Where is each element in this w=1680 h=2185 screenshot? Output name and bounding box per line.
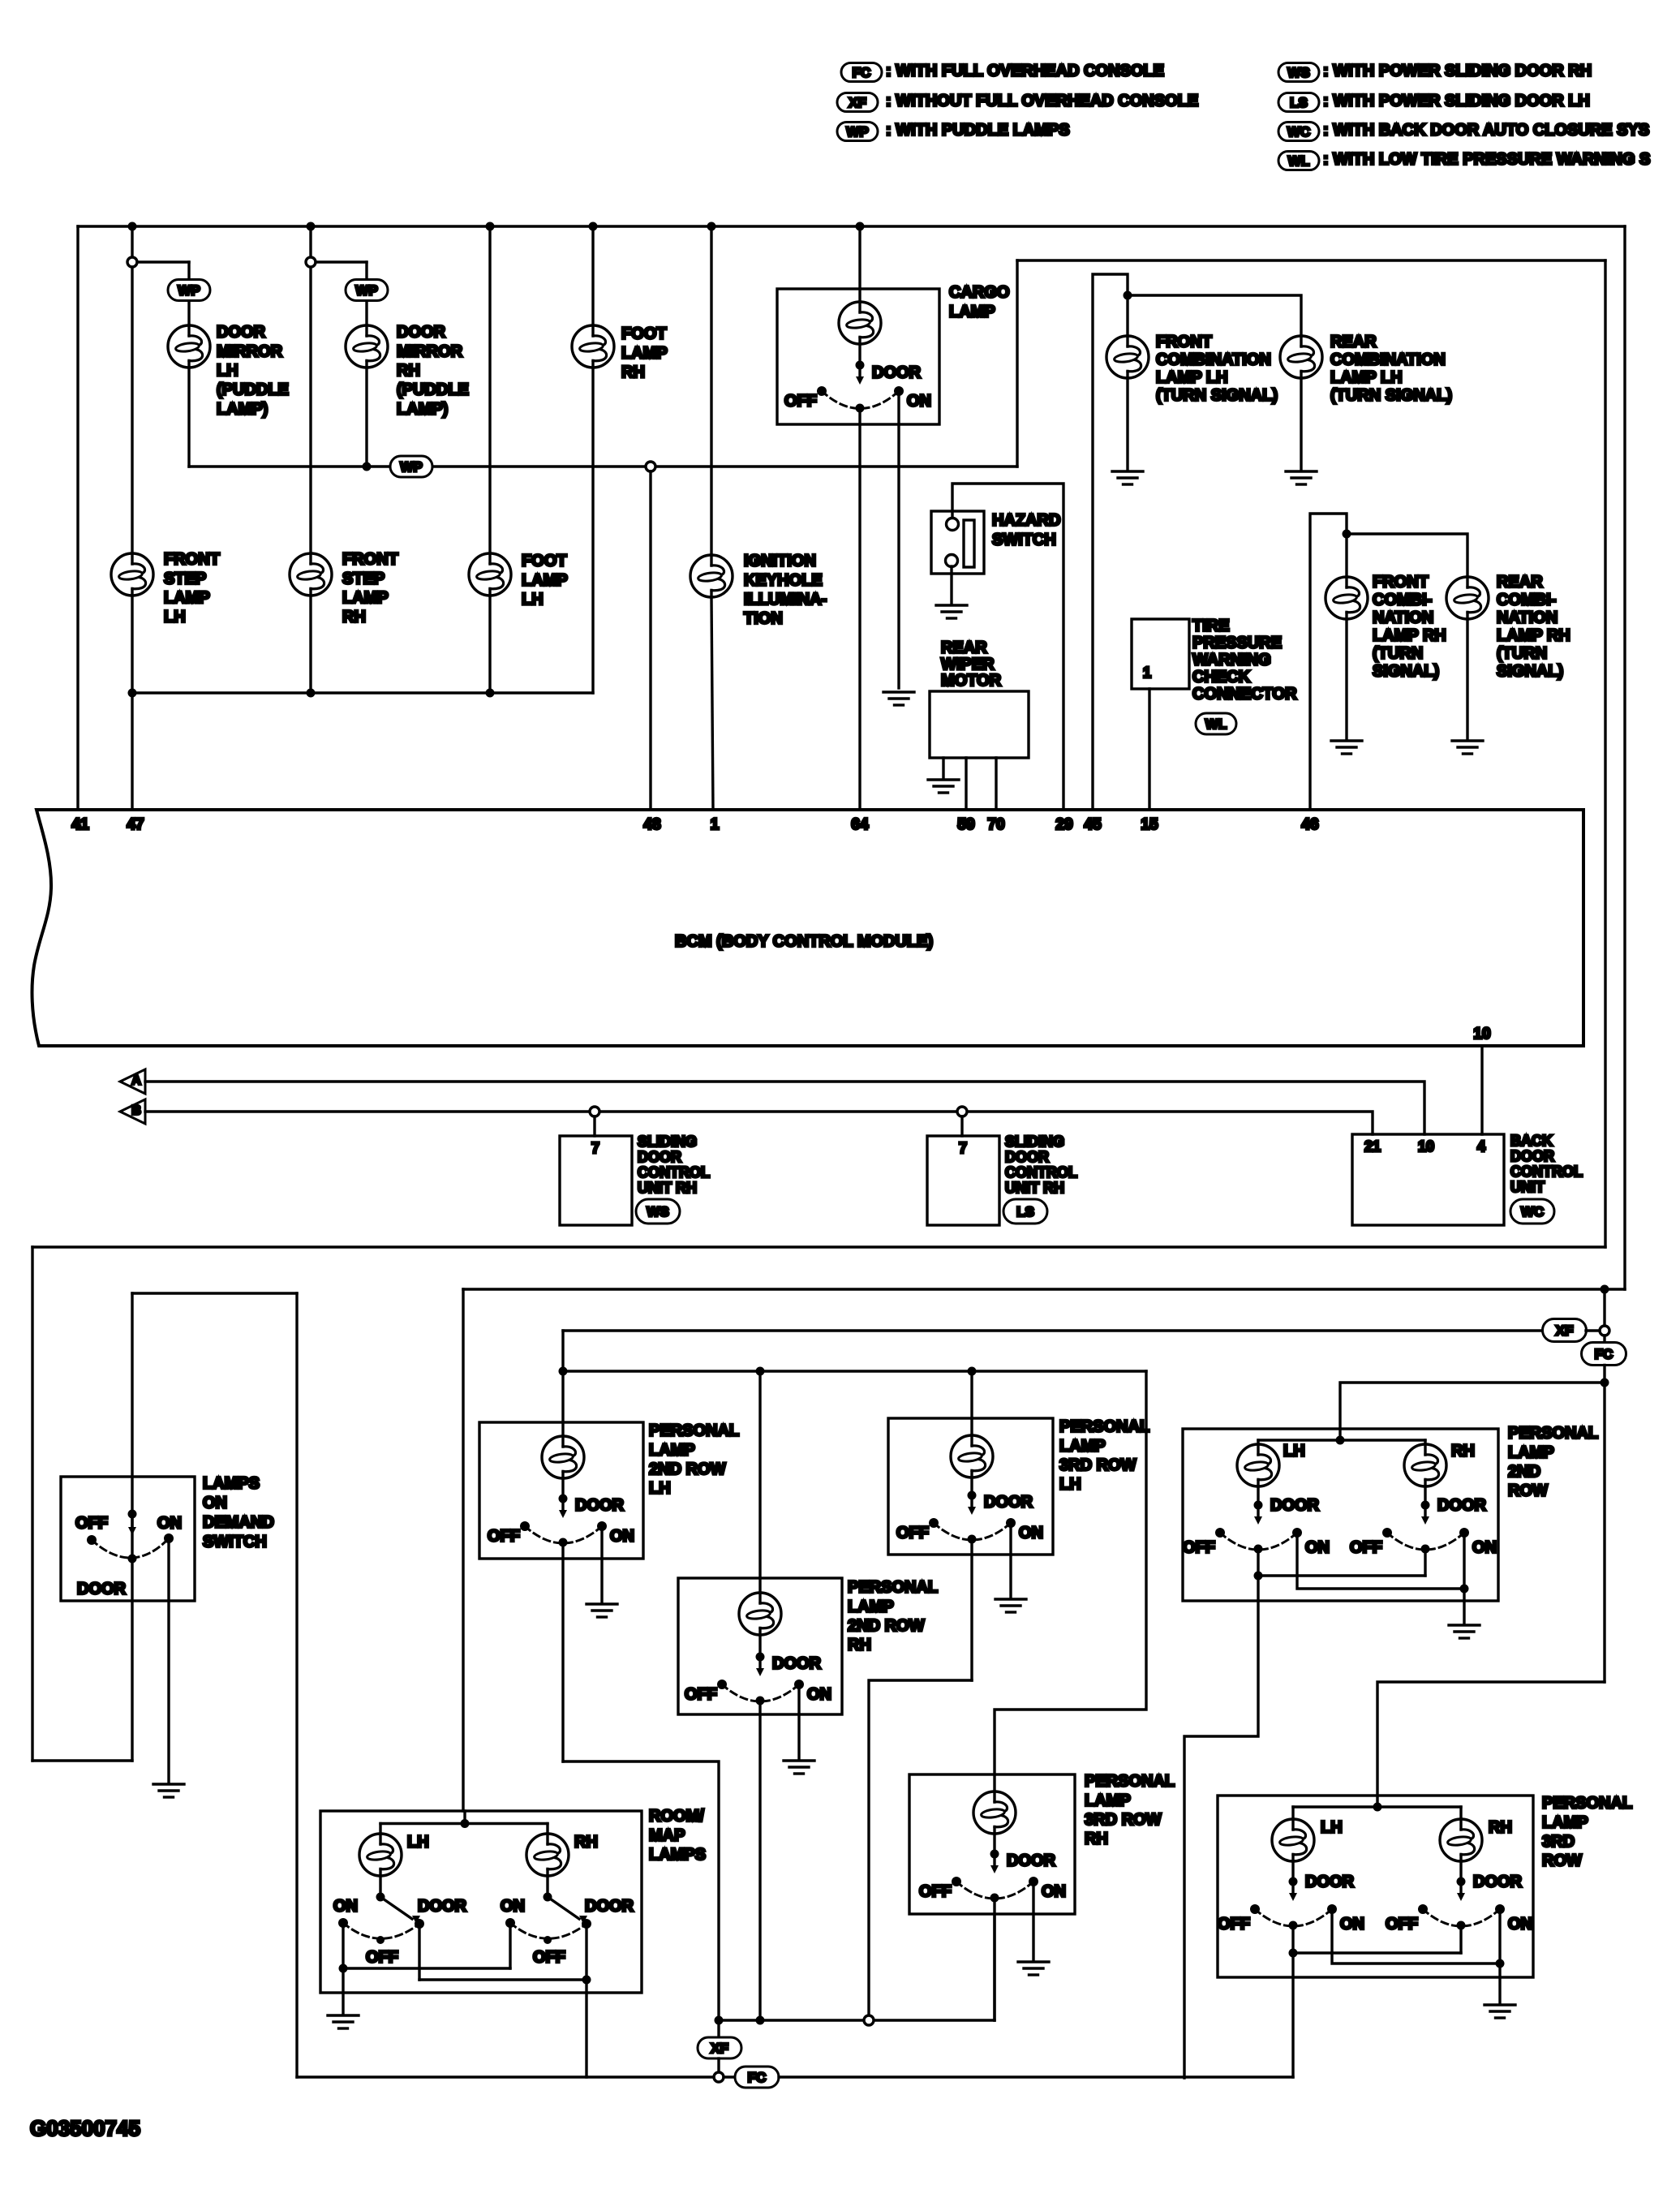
option symbol WC bbox=[1510, 1199, 1554, 1224]
svg-text:DOOR: DOOR bbox=[772, 1655, 822, 1673]
wire: WP oval to mirror RH bulb bbox=[365, 301, 367, 325]
svg-text:FRONT: FRONT bbox=[342, 551, 398, 569]
node: 2nd row RH junction bbox=[756, 2016, 765, 2025]
svg-text:MIRROR: MIRROR bbox=[397, 342, 463, 360]
wire: left feed down to BCM pin 41 bbox=[76, 226, 79, 810]
svg-text:DOOR: DOOR bbox=[418, 1898, 467, 1916]
svg-text:WC: WC bbox=[1521, 1204, 1544, 1219]
node: combination LH branch bbox=[1124, 291, 1132, 300]
switch: personal 2nd row LH bbox=[559, 1495, 568, 1503]
svg-text:OFF: OFF bbox=[366, 1949, 398, 1967]
svg-text:LAMP: LAMP bbox=[1508, 1443, 1554, 1461]
svg-text:COMBI-: COMBI- bbox=[1373, 591, 1432, 609]
box: personal lamp 2nd row bbox=[1183, 1429, 1498, 1601]
svg-text:OFF: OFF bbox=[1350, 1539, 1382, 1557]
wire: LH arm down bbox=[1257, 1549, 1259, 1576]
wire: LH ON to common bbox=[1297, 1536, 1464, 1589]
svg-text:FRONT: FRONT bbox=[1156, 333, 1212, 351]
node: top bus junction x=163 bbox=[128, 222, 137, 231]
lamp: REAR COMBINATION LAMP RH bulb bbox=[1446, 577, 1489, 619]
svg-text:CONNECTOR: CONNECTOR bbox=[1192, 686, 1297, 703]
svg-text:ON: ON bbox=[1472, 1539, 1497, 1557]
lamp: FOOT LAMP LH bulb bbox=[469, 553, 511, 596]
box: personal lamp 2nd row RH bbox=[678, 1578, 842, 1714]
contact OFF RH bbox=[544, 1936, 552, 1944]
svg-text:: WITH BACK DOOR AUTO CLOSURE: : WITH BACK DOOR AUTO CLOSURE SYS bbox=[1323, 122, 1649, 140]
node: arm pivot bbox=[128, 1555, 137, 1563]
ground: personal 3rd row LH bbox=[995, 1599, 1026, 1612]
svg-text:WS: WS bbox=[1287, 65, 1309, 80]
svg-text:(PUDDLE: (PUDDLE bbox=[217, 381, 289, 399]
svg-text:LS: LS bbox=[1016, 1204, 1034, 1219]
connector arrow A bbox=[120, 1069, 145, 1094]
svg-text:PERSONAL: PERSONAL bbox=[1542, 1795, 1632, 1813]
wire: BCM pin 46 riser bbox=[1310, 514, 1347, 810]
node: ON common junction bbox=[1496, 1959, 1505, 1968]
wire: LH bulb to junction bbox=[379, 1876, 381, 1897]
svg-text:LAMP: LAMP bbox=[164, 589, 210, 607]
svg-text:RH: RH bbox=[342, 609, 366, 626]
wire: XF drop bbox=[717, 2020, 720, 2037]
wire: room/map feed drop bbox=[462, 1289, 464, 1811]
svg-text:LAMP): LAMP) bbox=[217, 400, 268, 418]
wire: RH ON down bbox=[1463, 1536, 1465, 1589]
svg-text:PERSONAL: PERSONAL bbox=[848, 1579, 938, 1597]
ground: personal 3rd row bbox=[1485, 2005, 1515, 2018]
wire: inner top bus bbox=[1017, 259, 1605, 261]
svg-text:FC: FC bbox=[748, 2070, 767, 2085]
svg-text:48: 48 bbox=[643, 816, 660, 833]
svg-text:10: 10 bbox=[1418, 1138, 1434, 1155]
svg-text:: WITHOUT FULL OVERHEAD CONSOL: : WITHOUT FULL OVERHEAD CONSOLE bbox=[886, 92, 1198, 110]
svg-text:(TURN: (TURN bbox=[1373, 645, 1423, 663]
svg-text:WIPER: WIPER bbox=[941, 656, 995, 673]
svg-text:LAMP RH: LAMP RH bbox=[1497, 627, 1570, 645]
svg-text:TIRE: TIRE bbox=[1192, 617, 1230, 635]
svg-text:SLIDING: SLIDING bbox=[1005, 1133, 1064, 1150]
wire: ON to ground bbox=[1032, 1886, 1034, 1960]
lamp: CARGO LAMP bulb bbox=[839, 302, 881, 344]
lamp: room/map RH bulb bbox=[526, 1834, 569, 1876]
svg-text:STEP: STEP bbox=[342, 570, 385, 587]
node: ON common junction bbox=[339, 1964, 348, 1973]
node: top bus junction x=877 bbox=[707, 222, 716, 231]
svg-text:ON: ON bbox=[501, 1898, 525, 1916]
wire: branch to rear combination RH bbox=[1347, 534, 1467, 577]
svg-text:RH: RH bbox=[1085, 1830, 1108, 1848]
contact DOOR RH bbox=[582, 1919, 591, 1929]
svg-text:LAMP: LAMP bbox=[649, 1441, 695, 1459]
svg-text:ON: ON bbox=[807, 1686, 831, 1704]
svg-text:DOOR: DOOR bbox=[1007, 1852, 1056, 1870]
svg-text:DOOR: DOOR bbox=[1473, 1873, 1523, 1891]
svg-text:RH: RH bbox=[621, 363, 645, 381]
svg-text:46: 46 bbox=[1301, 816, 1318, 833]
wire: chain FC link bbox=[1603, 1336, 1605, 1343]
svg-text:(TURN SIGNAL): (TURN SIGNAL) bbox=[1330, 387, 1452, 405]
svg-text:NATION: NATION bbox=[1497, 609, 1558, 627]
svg-text:ON: ON bbox=[1305, 1539, 1330, 1557]
svg-text:4: 4 bbox=[1477, 1138, 1485, 1155]
wire: 3rd row RH drop bbox=[995, 1371, 1146, 1774]
wire: bulb to switch bbox=[993, 1834, 995, 1854]
ground: cargo lamp switch bbox=[883, 692, 914, 705]
svg-text:FOOT: FOOT bbox=[522, 553, 567, 570]
ground: hazard switch bbox=[936, 605, 967, 618]
wire: arm link bbox=[1293, 1951, 1461, 1954]
svg-text:XF: XF bbox=[711, 2041, 728, 2056]
wire: net B to back door control unit bbox=[145, 1112, 1373, 1134]
switch: personal 3rd row LH bbox=[968, 1491, 977, 1500]
svg-text:ON: ON bbox=[203, 1495, 227, 1512]
lamp: 2nd row LH bulb bbox=[1237, 1444, 1279, 1486]
wire: column foot lamp RH bbox=[591, 226, 594, 325]
contact ON LH bbox=[338, 1918, 348, 1928]
wire: rear comb RH to ground bbox=[1466, 619, 1468, 739]
wire: RH bulb drop bbox=[1424, 1440, 1426, 1444]
svg-text:B: B bbox=[131, 1104, 141, 1118]
lamp: 3rd row LH bulb bbox=[1272, 1819, 1314, 1861]
wire: puddle lamp return bus bbox=[189, 465, 389, 467]
wire: lamps-on-demand column bbox=[131, 1293, 133, 1761]
svg-text:PERSONAL: PERSONAL bbox=[1085, 1773, 1175, 1791]
wire: column foot lamp LH bbox=[488, 226, 491, 553]
node: lower bus junction col3 bbox=[486, 689, 495, 698]
svg-text:70: 70 bbox=[987, 816, 1004, 833]
node: lower bus junction col1 bbox=[128, 689, 137, 698]
wire: bottom bus right bbox=[779, 2075, 1293, 2078]
wire: BCM pin 10 to back door control unit bbox=[1480, 1046, 1483, 1134]
contact OFF LH bbox=[376, 1936, 385, 1944]
svg-text:RH: RH bbox=[848, 1637, 871, 1654]
svg-text:DOOR: DOOR bbox=[872, 364, 922, 382]
svg-text:UNIT RH: UNIT RH bbox=[638, 1180, 697, 1196]
svg-text:LAMP: LAMP bbox=[949, 303, 995, 320]
svg-text:PRESSURE: PRESSURE bbox=[1192, 634, 1282, 652]
wire: net A to back door control unit bbox=[145, 1082, 1424, 1134]
wire: XF oval link bbox=[1586, 1329, 1600, 1331]
box: personal lamp 3rd row LH bbox=[888, 1418, 1053, 1555]
switch: cargo lamp door switch bbox=[856, 361, 865, 370]
wire: top power bus bbox=[78, 225, 1625, 227]
wire: feed inside bbox=[970, 1418, 973, 1435]
svg-text:LAMP: LAMP bbox=[848, 1598, 894, 1615]
lamp: REAR COMBINATION LAMP LH bulb bbox=[1280, 336, 1322, 378]
node: feed junction bbox=[1373, 1803, 1382, 1812]
wire: feed into 2nd row double box bbox=[1340, 1383, 1605, 1440]
svg-text:: WITH LOW TIRE PRESSURE WARNI: : WITH LOW TIRE PRESSURE WARNING S bbox=[1323, 151, 1650, 169]
node: switch common junction bbox=[128, 1510, 137, 1519]
wire: XF bus left bbox=[563, 1329, 1542, 1331]
svg-text:ON: ON bbox=[1042, 1883, 1066, 1901]
svg-text:COMBINATION: COMBINATION bbox=[1156, 351, 1271, 369]
svg-text:64: 64 bbox=[851, 816, 869, 833]
wire: DOOR link bbox=[419, 1978, 586, 1981]
svg-text:DOOR: DOOR bbox=[1305, 1873, 1355, 1891]
wire: feed bbox=[463, 1811, 466, 1824]
wire: feed inside bbox=[993, 1774, 995, 1791]
svg-text:7: 7 bbox=[591, 1140, 599, 1156]
svg-text:XF: XF bbox=[849, 95, 866, 110]
wire: BCM pin 45 riser bbox=[1093, 274, 1128, 810]
svg-text:OFF: OFF bbox=[919, 1883, 952, 1901]
svg-text:UNIT RH: UNIT RH bbox=[1005, 1180, 1064, 1196]
lamp: FRONT STEP LAMP LH bulb bbox=[111, 553, 153, 596]
svg-text:3RD: 3RD bbox=[1542, 1833, 1575, 1851]
option symbol WL bbox=[1196, 713, 1236, 734]
wire: mirror RH to puddle return bus bbox=[365, 368, 367, 467]
svg-text:SIGNAL): SIGNAL) bbox=[1497, 663, 1563, 681]
svg-text:RH: RH bbox=[397, 362, 420, 380]
svg-text:TION: TION bbox=[744, 610, 783, 628]
svg-text:LAMP: LAMP bbox=[522, 571, 568, 589]
svg-text:LAMP: LAMP bbox=[1542, 1813, 1588, 1831]
svg-text:LAMP: LAMP bbox=[621, 344, 668, 362]
wire: LH arm output bbox=[1184, 1576, 1258, 2078]
svg-text:47: 47 bbox=[127, 816, 144, 833]
wire: WP oval to mirror LH bulb bbox=[187, 301, 190, 325]
svg-text:DOOR: DOOR bbox=[1437, 1497, 1487, 1515]
svg-text:LH: LH bbox=[1059, 1476, 1081, 1494]
svg-text:ON: ON bbox=[157, 1515, 182, 1533]
wire: lamp line below box bbox=[970, 1539, 973, 1680]
svg-text:ON: ON bbox=[610, 1528, 634, 1546]
svg-text:A: A bbox=[131, 1074, 141, 1088]
svg-text:LH: LH bbox=[1283, 1443, 1305, 1460]
node: XF/FC connector circle bbox=[714, 2072, 724, 2082]
wire: lower bus 2 bbox=[463, 1288, 1625, 1290]
svg-text:ON: ON bbox=[1340, 1916, 1364, 1933]
node: connector on column 1 bbox=[127, 257, 137, 267]
wire: wiper motor to BCM pin 59 bbox=[965, 758, 967, 810]
svg-text:DOOR: DOOR bbox=[77, 1581, 127, 1598]
svg-text:CONTROL: CONTROL bbox=[1005, 1164, 1077, 1181]
wire: cargo bulb to switch bbox=[858, 344, 861, 365]
wire: riser from puddle-lamp return bus bbox=[1016, 260, 1018, 467]
lamp: DOOR MIRROR RH bulb bbox=[346, 325, 388, 368]
svg-text:MOTOR: MOTOR bbox=[941, 672, 1002, 690]
node: LH arm junction bbox=[376, 1893, 385, 1902]
wire: RH DOOR down bbox=[585, 1929, 587, 1980]
svg-text:OFF: OFF bbox=[1218, 1916, 1250, 1933]
svg-text:15: 15 bbox=[1141, 816, 1158, 833]
ground: personal 3rd row RH bbox=[1018, 1962, 1049, 1975]
box: hazard switch bbox=[931, 511, 984, 574]
svg-text:ON: ON bbox=[333, 1898, 358, 1916]
ground: front combination RH bbox=[1331, 741, 1362, 754]
svg-text:LAMP RH: LAMP RH bbox=[1373, 627, 1446, 645]
wire: RH bulb drop bbox=[1459, 1807, 1462, 1819]
wire: column ignition keyhole illumination bbox=[710, 226, 712, 555]
svg-text:LAMP LH: LAMP LH bbox=[1156, 369, 1228, 387]
wire: branch to door mirror RH bbox=[316, 260, 367, 263]
wire: bottom bus mid bbox=[724, 2075, 736, 2078]
box: tire pressure warning check connector bbox=[1132, 619, 1189, 689]
wire: bulb to switch bbox=[970, 1477, 973, 1495]
box: cargo lamp bbox=[777, 289, 939, 424]
svg-text:OFF: OFF bbox=[75, 1515, 108, 1533]
box: lamps on demand switch bbox=[61, 1477, 195, 1601]
svg-text:G03500745: G03500745 bbox=[30, 2116, 140, 2140]
box: sliding door control unit RH (LS) bbox=[927, 1136, 999, 1225]
svg-text:BCM (BODY CONTROL MODULE): BCM (BODY CONTROL MODULE) bbox=[675, 933, 933, 951]
svg-text:: WITH POWER SLIDING DOOR LH: : WITH POWER SLIDING DOOR LH bbox=[1323, 92, 1590, 110]
box: room/map lamps bbox=[320, 1811, 642, 1993]
lamp: personal 2nd row RH bulb bbox=[739, 1593, 781, 1635]
legend: WS symbol bbox=[1278, 63, 1319, 82]
svg-text:7: 7 bbox=[959, 1140, 967, 1156]
box: back door control unit bbox=[1352, 1134, 1504, 1225]
svg-text:DOOR: DOOR bbox=[585, 1898, 634, 1916]
wire: LH ON to common bbox=[1332, 1912, 1500, 1963]
svg-text:LAMP: LAMP bbox=[342, 589, 389, 607]
svg-text:FC: FC bbox=[1595, 1347, 1613, 1362]
switch: lamps-on-demand dashed arc bbox=[92, 1538, 169, 1558]
box: personal lamp 2nd row LH bbox=[479, 1422, 643, 1559]
lamp: FRONT COMBINATION LAMP LH bulb bbox=[1106, 336, 1149, 378]
svg-text:OFF: OFF bbox=[784, 393, 817, 411]
node: top bus junction x=604 bbox=[486, 222, 495, 231]
wire: feed into box bbox=[561, 1371, 564, 1436]
wire: LH bulb to switch bbox=[1257, 1486, 1259, 1505]
ground: front combination LH bbox=[1112, 471, 1143, 484]
ground: personal 2nd row RH bbox=[784, 1761, 814, 1774]
wire: ON common to ground bbox=[1498, 1963, 1501, 2003]
option symbol XF (bottom) bbox=[698, 2037, 741, 2058]
node: branch 2nd row RH bbox=[756, 1367, 765, 1376]
svg-text:DEMAND: DEMAND bbox=[203, 1514, 274, 1532]
wire: lamp line below box bbox=[561, 1542, 564, 1761]
wire: mirror LH to puddle return bus bbox=[187, 368, 190, 467]
node: feed junction bbox=[1336, 1436, 1345, 1445]
svg-text:2ND ROW: 2ND ROW bbox=[649, 1460, 726, 1478]
wire: branch to rear combination LH bbox=[1128, 295, 1301, 336]
svg-text:RH: RH bbox=[574, 1834, 598, 1852]
svg-text:2ND: 2ND bbox=[1508, 1463, 1540, 1481]
svg-text:WC: WC bbox=[1287, 124, 1310, 140]
wire: 3rd row LH drop bbox=[970, 1371, 973, 1418]
wire: RH bulb to junction bbox=[546, 1876, 548, 1897]
node: puddle bus junction bbox=[363, 462, 372, 471]
node: ON common junction bbox=[1460, 1585, 1469, 1594]
wire: outer right frame vertical bbox=[1623, 226, 1626, 1289]
connector arrow B bbox=[120, 1099, 145, 1124]
svg-text:COMBI-: COMBI- bbox=[1497, 591, 1556, 609]
wire: arm link bbox=[1258, 1574, 1425, 1576]
wire: inner top bus bbox=[380, 1822, 548, 1825]
svg-text:LH: LH bbox=[522, 591, 544, 609]
wire: front comb LH to ground bbox=[1126, 378, 1128, 470]
svg-text:REAR: REAR bbox=[1497, 574, 1543, 591]
svg-text:FRONT: FRONT bbox=[164, 551, 220, 569]
wire: column front step lamp RH bbox=[309, 226, 312, 553]
svg-text:2ND ROW: 2ND ROW bbox=[848, 1617, 925, 1635]
svg-text:: WITH FULL OVERHEAD CONSOLE: : WITH FULL OVERHEAD CONSOLE bbox=[886, 62, 1164, 80]
svg-text:LH: LH bbox=[217, 362, 238, 380]
wire: front comb RH to ground bbox=[1345, 619, 1347, 739]
switch arm RH bbox=[548, 1897, 579, 1919]
option symbol WP (door mirror RH) bbox=[346, 280, 388, 301]
wire: ON to ground bbox=[797, 1689, 800, 1759]
svg-text:LH: LH bbox=[407, 1834, 429, 1852]
wire: left drop bbox=[31, 1247, 33, 1761]
wire: jog right to XF drop bbox=[563, 1761, 719, 2020]
svg-text:: WITH POWER SLIDING DOOR RH: : WITH POWER SLIDING DOOR RH bbox=[1323, 62, 1592, 80]
svg-text:FC: FC bbox=[853, 65, 871, 80]
svg-text:LAMP): LAMP) bbox=[397, 400, 448, 418]
wire: right personal 3rd row feed bbox=[1377, 1682, 1605, 1807]
contact OFF bbox=[87, 1535, 97, 1545]
svg-text:MIRROR: MIRROR bbox=[217, 342, 283, 360]
legend: WC symbol bbox=[1278, 123, 1319, 141]
switch: 2nd row LH bbox=[1254, 1501, 1263, 1510]
wire: LH ON down to common bbox=[342, 1928, 344, 1968]
wire: bulb to switch bbox=[758, 1635, 761, 1657]
wire: ON common to ground bbox=[1463, 1589, 1465, 1624]
option symbol WP (door mirror LH) bbox=[168, 280, 210, 301]
ground: lamps on demand ON bbox=[153, 1784, 184, 1797]
svg-text:21: 21 bbox=[1364, 1138, 1381, 1155]
switch: personal 3rd row RH bbox=[990, 1850, 999, 1859]
wire: lower bus 1 bbox=[32, 1245, 1605, 1248]
svg-text:DOOR: DOOR bbox=[1270, 1497, 1320, 1515]
wire: inner right frame vertical bbox=[1604, 260, 1606, 1247]
wire: lamp line below box bbox=[993, 1898, 995, 2020]
wire: LH bulb drop bbox=[379, 1824, 381, 1834]
contact ON bbox=[164, 1533, 174, 1543]
svg-text:(PUDDLE: (PUDDLE bbox=[397, 381, 469, 399]
wire: chain to XF connector bbox=[1603, 1293, 1605, 1326]
ground: room/map lamps bbox=[328, 2015, 359, 2028]
node: RH arm junction bbox=[544, 1893, 552, 1902]
box: personal lamp 3rd row bbox=[1218, 1796, 1533, 1977]
wire: down to BCM pin 48 bbox=[649, 471, 651, 810]
switch arm arrow bbox=[131, 1514, 133, 1527]
option symbol WP (return bus) bbox=[390, 456, 432, 477]
svg-text:RH: RH bbox=[1451, 1443, 1475, 1460]
legend: WL symbol bbox=[1278, 152, 1319, 170]
lamp: FRONT COMBINATION LAMP RH bulb bbox=[1326, 577, 1368, 619]
svg-text:RH: RH bbox=[1489, 1819, 1512, 1837]
wire: LH arm down bbox=[1291, 1925, 1294, 1953]
wire: ON contact to ground bbox=[167, 1543, 170, 1783]
node: lower bus junction col2 bbox=[307, 689, 316, 698]
switch: personal 2nd row RH bbox=[756, 1653, 765, 1662]
svg-text:STEP: STEP bbox=[164, 570, 206, 587]
svg-text:LH: LH bbox=[649, 1480, 671, 1498]
wire: branch to door mirror LH bbox=[137, 260, 189, 263]
node: arm link junction bbox=[1289, 1949, 1298, 1958]
wire: feed inside bbox=[758, 1578, 761, 1593]
switch: 3rd row RH bbox=[1457, 1877, 1466, 1886]
wire: loop right drop to XF/FC bus bbox=[295, 1293, 298, 2077]
part: hazard switch slider bbox=[964, 520, 974, 567]
box: personal lamp 3rd row RH bbox=[909, 1774, 1075, 1914]
node: top bus junction x=731 bbox=[589, 222, 598, 231]
svg-text:PERSONAL: PERSONAL bbox=[1059, 1418, 1149, 1436]
wire: hazard lower terminal to ground bbox=[950, 566, 952, 604]
wire: connector to BCM pin 15 bbox=[1148, 689, 1150, 810]
wire: branch bus row4 bbox=[563, 1370, 1146, 1372]
lamp: personal 2nd row LH bulb bbox=[542, 1436, 584, 1478]
svg-text:WL: WL bbox=[1205, 716, 1227, 732]
lamp: DOOR MIRROR LH bulb bbox=[168, 325, 210, 368]
lamp: personal 3rd row RH bulb bbox=[973, 1791, 1016, 1834]
svg-text:SWITCH: SWITCH bbox=[203, 1533, 267, 1551]
node: XF connector circle bbox=[1600, 1326, 1609, 1336]
wire: LH bulb drop bbox=[1257, 1440, 1259, 1444]
svg-text:LH: LH bbox=[164, 609, 186, 626]
